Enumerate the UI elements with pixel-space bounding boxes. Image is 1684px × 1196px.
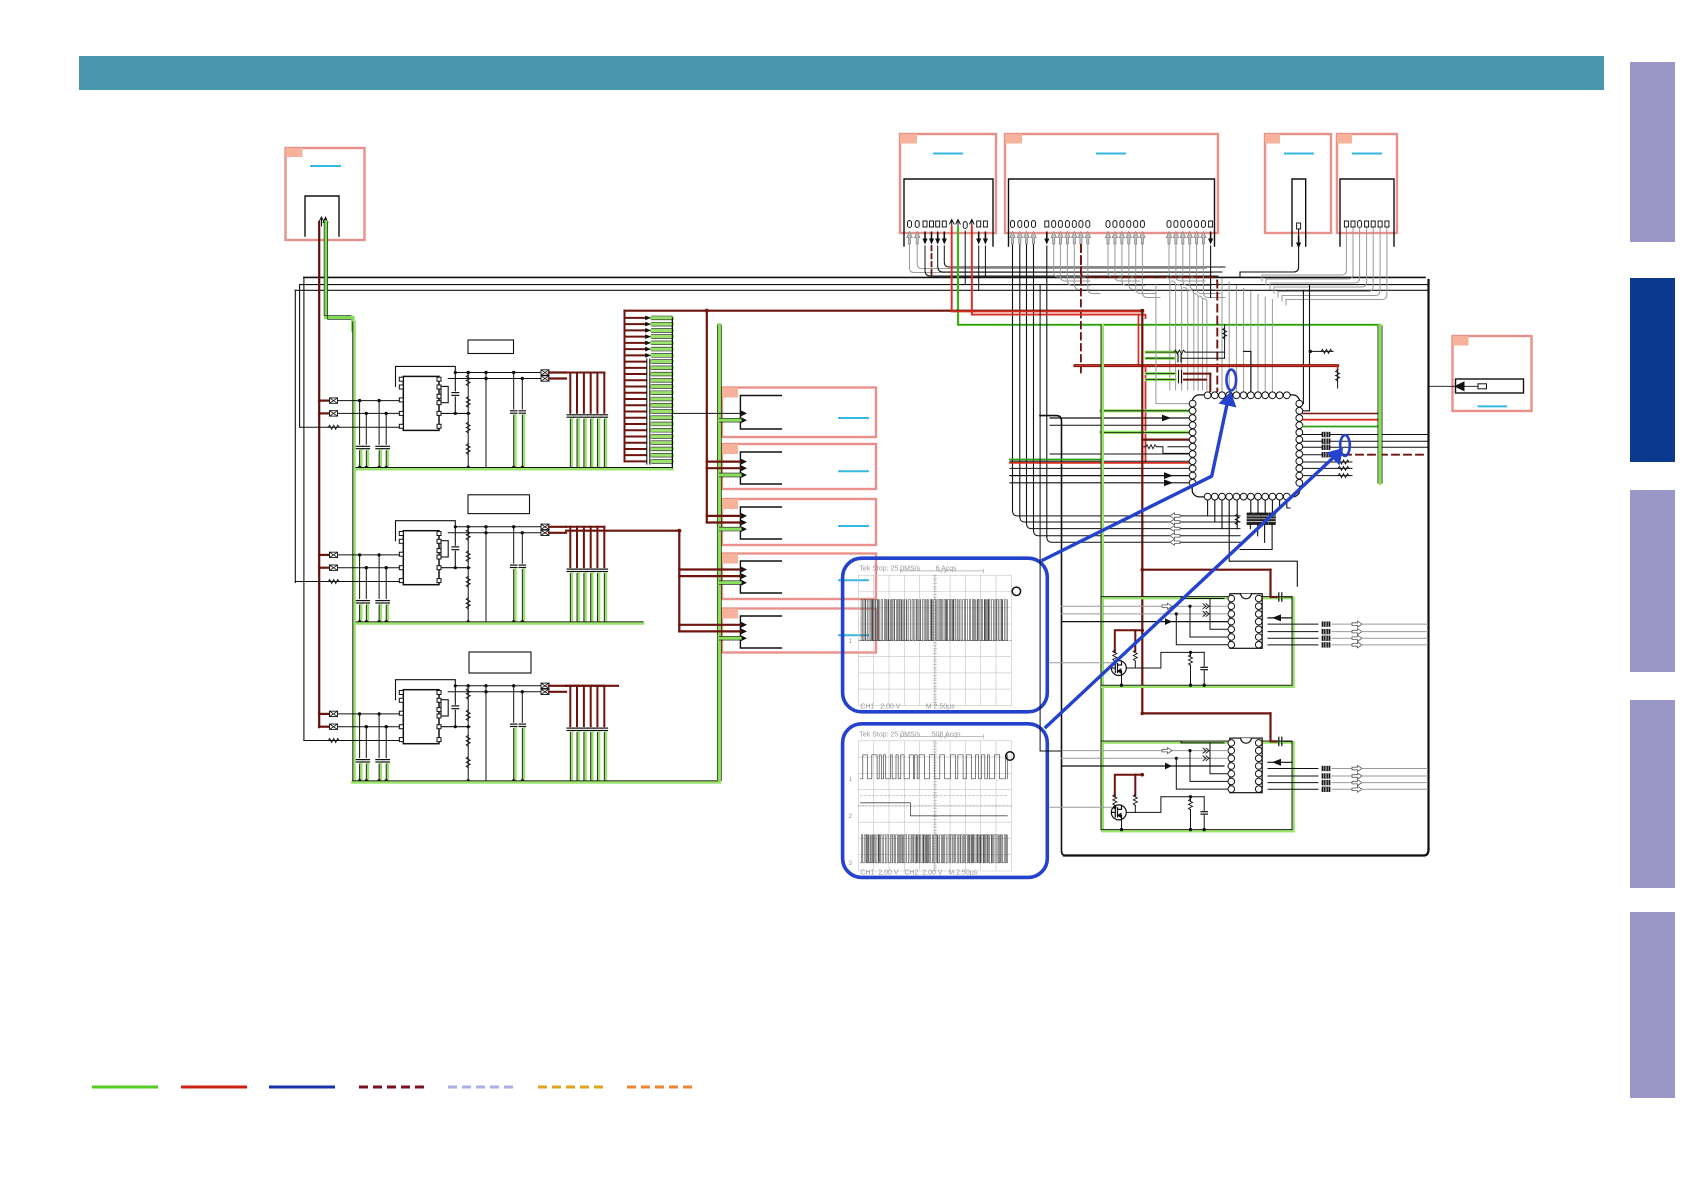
- legend: periwinkle dashed wire: [448, 1086, 514, 1089]
- label box LB3: [469, 652, 531, 673]
- ladder rungs: [625, 316, 673, 465]
- wire: green from CN2 down then across DSP: [958, 228, 1380, 325]
- green power bus 2: [356, 622, 643, 625]
- audio buffer cell 2 green loop: [1102, 742, 1293, 831]
- wire: feed to IC3 resistor row: [304, 740, 328, 742]
- connector CN4 (top row, small): [1265, 134, 1331, 249]
- filter pair 1 above chip: [1146, 352, 1225, 358]
- oscilloscope callout 2: [843, 724, 1048, 878]
- connector CN2 (top row, 1st): [900, 134, 996, 246]
- sidebar tab 2 (active): [1630, 278, 1675, 462]
- voltage regulator block IC3: [319, 680, 608, 783]
- scope 1 marker circle: [1012, 587, 1020, 595]
- sidebar tab 4: [1630, 700, 1675, 888]
- svg-text:2: 2: [848, 813, 852, 820]
- DSP chip U1 (QFP): [1189, 392, 1303, 500]
- wires to lower DIP pins cell2: [1176, 758, 1227, 789]
- legend: amber dashed wire: [538, 1086, 604, 1089]
- long gray wire at chip left: [1156, 285, 1189, 404]
- connector CN5 (top row, right): [1337, 134, 1397, 246]
- wire: red supply net: [952, 226, 1338, 388]
- chip bottom pin wires: [1208, 500, 1298, 586]
- svg-text:1: 1: [848, 776, 852, 783]
- blue callout arrow 1: [1043, 402, 1228, 560]
- op-amp U2: [1228, 594, 1262, 649]
- wires: bus to chip right pins: [1300, 290, 1303, 403]
- wire: dashed maroon net to chip: [1081, 245, 1217, 391]
- label box LB2: [468, 495, 530, 514]
- chip right pin wires: [1303, 412, 1428, 476]
- audio buffer cell 1 green loop: [1102, 598, 1293, 687]
- wire: red pair from CN2 down to DSP: [952, 228, 1143, 314]
- op-amp U3: [1228, 738, 1262, 793]
- transistor Q1 network: [1115, 630, 1136, 652]
- sidebar tab 3: [1630, 490, 1675, 672]
- blue callout arrow 2: [1046, 456, 1336, 728]
- stub pair at chip top right: [1244, 351, 1251, 391]
- wires to lower DIP pins cell1: [1176, 614, 1227, 645]
- voltage regulator block IC2: [319, 521, 608, 624]
- svg-text:CH1 2.00 V M 2.5: CH1 2.00 V M 2.50µs: [860, 704, 955, 711]
- chip left pin wires: [1010, 411, 1189, 486]
- black link to red column: [1310, 350, 1333, 352]
- green net vertical spine left of DSP: [1101, 325, 1104, 830]
- label box LB1: [468, 340, 514, 354]
- wire: CN4 single lead: [1240, 229, 1299, 277]
- blue highlight ellipse 1: [1227, 370, 1237, 391]
- connector CN3 (top row, wide): [1005, 134, 1218, 246]
- svg-text:Tek Stop: 25.0MS/s 508 Ac: Tek Stop: 25.0MS/s 508 Acqs: [859, 731, 961, 738]
- connector CN8 (middle column 3): [722, 499, 876, 545]
- resistor drop at chip top: [1224, 325, 1226, 358]
- voltage regulator block IC1: [319, 366, 608, 469]
- wires: CN5 bundle: [1262, 228, 1387, 305]
- wire: CN1 green lead down then right: [324, 222, 354, 782]
- maroon feeder A to mid connectors: [707, 311, 740, 523]
- green net vertical right of chip: [1378, 326, 1382, 483]
- wires: CN3 descent bundles: [1013, 245, 1047, 537]
- black feed to CN6 row1: [672, 412, 740, 414]
- blue highlight ellipse 2: [1340, 435, 1350, 456]
- connector CN1 (top-left salmon box): [286, 148, 365, 240]
- legend: maroon dashed wire: [359, 1086, 425, 1089]
- wires: CN2 descent bundle: [910, 231, 1226, 290]
- green power bus 3: [353, 781, 720, 784]
- connector CN9 (middle column 4): [722, 554, 876, 600]
- main frame of DSP section: [295, 277, 1428, 855]
- maroon feeder B to mid connectors: [566, 531, 740, 632]
- wire bundle: bus to DSP left area: [1166, 277, 1207, 390]
- sidebar tab 5: [1630, 912, 1675, 1098]
- green power bus 1: [356, 468, 672, 471]
- wire: deep return to frame: [1040, 285, 1061, 751]
- wire bundle: connector CN3 to DSP lower rows: [1013, 511, 1273, 550]
- header bar: [79, 56, 1604, 90]
- svg-text:1: 1: [848, 638, 852, 645]
- legend: red solid wire: [181, 1086, 247, 1089]
- scope 2 marker circle: [1006, 752, 1014, 760]
- legend: green solid wire: [92, 1086, 158, 1089]
- wire: red branch to lower net: [1010, 366, 1192, 463]
- green riser to connector column: [717, 325, 740, 781]
- legend: orange dashed wire: [627, 1086, 693, 1089]
- wire: feed to IC1 resistor row: [300, 426, 328, 428]
- sidebar tab 1: [1630, 62, 1675, 242]
- connector CN10 (middle column 5): [722, 609, 876, 653]
- filter pair 2 above chip: [1146, 374, 1210, 391]
- svg-text:Tek Stop: 25.0MS/s 6 Ac: Tek Stop: 25.0MS/s 6 Acqs: [859, 566, 957, 573]
- connector CN7 (middle column 2): [722, 444, 876, 489]
- connector CN11 (far right salmon box): [1429, 336, 1532, 411]
- wire: CN1 maroon lead down: [318, 222, 320, 727]
- wire: feed to IC2 resistor row: [295, 581, 328, 583]
- wire bundle: bus to chip top pins: [1222, 279, 1272, 391]
- connector CN6 (middle column 1): [722, 388, 876, 438]
- svg-text:3: 3: [848, 860, 852, 867]
- transistor Q2 network: [1115, 775, 1136, 797]
- svg-text:CH1 2.00 V CH2 2.00 V M: CH1 2.00 V CH2 2.00 V M 2.50µs: [860, 869, 977, 876]
- oscilloscope callout 1: [843, 558, 1048, 712]
- wire: CN3 dashed maroon down: [1080, 245, 1082, 377]
- signal ladder bus (IC1 to DSP): [625, 311, 1143, 468]
- legend: blue solid wire: [269, 1086, 335, 1089]
- maroon backbone net: [1142, 311, 1270, 742]
- maroon bus IC3: [566, 685, 618, 687]
